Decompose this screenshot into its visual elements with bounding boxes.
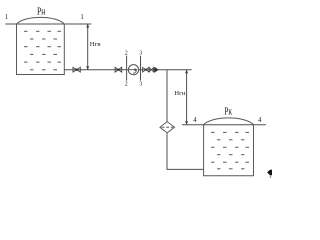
node 1-1 level line of tank Рн [5, 23, 91, 25]
svg-text:2: 2 [125, 82, 128, 88]
svg-text:4: 4 [193, 116, 197, 124]
wire discharge pipe from pump to elbow [139, 69, 192, 71]
section marker 2-2 line [126, 56, 128, 81]
svg-text:3: 3 [139, 51, 142, 57]
section marker 3-3 line [140, 56, 142, 81]
tank B1 (Рн) body [17, 24, 65, 75]
svg-text:Рн: Рн [37, 6, 46, 17]
valve V1 (suction gate valve) [73, 67, 80, 72]
svg-text:1: 1 [5, 14, 8, 21]
svg-text:4: 4 [258, 116, 262, 124]
wire vertical discharge down pipe [166, 70, 168, 122]
svg-text:Нгн: Нгн [174, 90, 186, 97]
svg-text:Рк: Рк [224, 106, 232, 117]
tank B2 (Рк) body [204, 125, 254, 176]
svg-text:1: 1 [80, 14, 83, 21]
tank B2 liquid dashes [211, 132, 249, 168]
valve V2 (pre-pump gate valve) [115, 67, 122, 72]
wire suction pipe from tank B1 to pump [64, 69, 128, 71]
node 4-4 level line of tank Рк [182, 124, 266, 126]
valve V4 (second discharge valve) [149, 67, 153, 72]
tank B1 (Рн) top arc [17, 17, 65, 24]
filter F1 (diamond) [160, 122, 175, 133]
cursor mark artifact [267, 170, 272, 176]
svg-text:3: 3 [139, 82, 142, 88]
pump P1 [128, 65, 138, 75]
flow direction arrow (check valve) [154, 67, 158, 73]
wire filter outlet down pipe [166, 133, 168, 170]
tank B1 liquid dashes [24, 31, 61, 70]
dimension line Нгн [186, 70, 188, 125]
svg-text:Нгв: Нгв [90, 41, 101, 48]
tank B2 (Рк) top arc [204, 118, 254, 125]
svg-text:2: 2 [125, 51, 128, 57]
valve V3 (discharge gate valve) [143, 67, 149, 72]
dimension line Нгв [87, 24, 89, 70]
wire bottom pipe into tank B2 [167, 168, 204, 170]
